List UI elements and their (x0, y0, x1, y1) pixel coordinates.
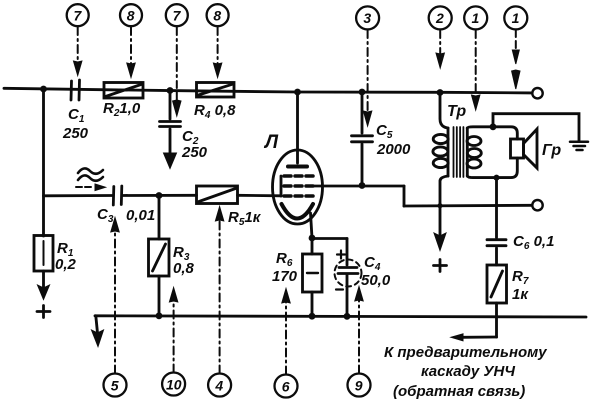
tube grid spine (280, 176, 283, 196)
wire lower rail (grid wire) (44, 194, 113, 197)
svg-text:1: 1 (472, 10, 480, 26)
node junction speaker top (490, 123, 497, 130)
svg-text:C1: C1 (68, 106, 85, 125)
pin 2 callout (Tp) (429, 6, 452, 29)
node junction Tp primary top (437, 89, 444, 96)
wire to top ground (493, 114, 579, 141)
tube grid row 2 (284, 184, 313, 188)
wire C3 to R5 (123, 194, 197, 197)
value label C3 0,01 (97, 206, 155, 225)
svg-text:R51к: R51к (228, 209, 262, 228)
svg-text:1: 1 (512, 10, 520, 26)
value label R1 0,2 (55, 240, 77, 273)
pin 8 callout (R4) (207, 4, 229, 26)
tube cathode arc (282, 204, 314, 219)
resistor R3 (158, 196, 161, 240)
value label C5 2000 (376, 122, 411, 158)
value label C2 250 (181, 128, 208, 161)
svg-text:0,2: 0,2 (55, 256, 77, 273)
capacitor C6 (495, 178, 498, 238)
pin 7 callout (C2) (166, 4, 188, 26)
transformer Tp secondary winding (466, 128, 469, 176)
svg-text:Гр: Гр (542, 142, 561, 159)
svg-text:250: 250 (181, 144, 208, 161)
value label R4 0,8 (194, 102, 236, 121)
polarity plus C4 (337, 251, 345, 259)
value label R6 170 (272, 250, 298, 285)
transformer Tp primary winding (440, 93, 448, 129)
plus sign below Tp primary (434, 260, 447, 272)
svg-text:C5: C5 (376, 122, 393, 141)
value label C6 0,1 (513, 233, 554, 252)
svg-text:8: 8 (127, 8, 135, 24)
svg-text:1к: 1к (512, 286, 529, 303)
svg-text:10: 10 (166, 377, 182, 393)
capacitor C5 (361, 92, 364, 133)
speaker Gr (511, 139, 524, 158)
capacitor C3 (113, 186, 122, 205)
node junction R3 bottom (156, 312, 163, 319)
pin 10 callout (R3) (162, 373, 185, 396)
svg-text:К предварительному: К предварительному (384, 344, 547, 361)
resistor R6 (311, 238, 314, 254)
node junction C5 top (359, 89, 366, 96)
ground bus wire (95, 316, 586, 317)
pin 7 callout (C1) (67, 4, 89, 26)
node junction left top (40, 86, 47, 93)
ground bus left arrow (96, 316, 98, 333)
polarity minus C4 (336, 288, 343, 290)
value label R5 1k (228, 209, 262, 228)
svg-text:6: 6 (282, 379, 290, 395)
supply arrow below Tp primary (434, 233, 446, 251)
tube label (263, 132, 279, 153)
svg-text:3: 3 (363, 10, 371, 26)
svg-text:R21,0: R21,0 (103, 100, 141, 119)
pin 6 callout (R6) (275, 375, 298, 398)
value label R7 1k (512, 268, 529, 303)
wire R5 to tube grid (238, 194, 282, 197)
svg-text:каскаду УНЧ: каскаду УНЧ (421, 363, 515, 380)
node terminal top-right (open circle) (532, 88, 542, 98)
svg-text:4: 4 (214, 378, 223, 394)
wire left vertical branch (42, 89, 45, 235)
svg-text:250: 250 (62, 125, 89, 142)
transformer Tp core (454, 127, 464, 177)
node junction C5 bottom (359, 182, 366, 189)
resistor R2 (104, 83, 143, 99)
node junction C4 bottom (344, 313, 351, 320)
svg-text:0,8: 0,8 (173, 260, 195, 277)
transformer Tp label (447, 103, 466, 120)
value label C4 50,0 (361, 254, 391, 289)
node junction R3 top (156, 192, 163, 199)
value label C1 250 (62, 106, 89, 142)
value label R2 1,0 (103, 100, 141, 119)
svg-text:170: 170 (272, 268, 298, 285)
pin 1 callout (terminal) (504, 6, 527, 29)
svg-text:R7: R7 (512, 268, 529, 287)
value label R3 0,8 (173, 244, 195, 277)
node junction R6 bottom (309, 313, 316, 320)
pin 5 callout (C3) (104, 374, 127, 397)
tube anode lead (296, 92, 299, 163)
wire tube to output step (313, 185, 404, 188)
svg-text:50,0: 50,0 (361, 272, 391, 289)
svg-text:7: 7 (74, 8, 83, 24)
svg-text:C6 0,1: C6 0,1 (513, 233, 554, 252)
pin 4 callout (R5) (208, 374, 231, 397)
capacitor C4 electrolytic (312, 237, 347, 240)
svg-text:(обратная связь): (обратная связь) (393, 383, 525, 400)
chassis arrow below C2 (164, 153, 177, 169)
resistor R7 (487, 265, 507, 303)
pin 1 callout (Tp right) (464, 6, 487, 29)
svg-text:9: 9 (355, 378, 363, 394)
node junction cathode (309, 235, 316, 242)
feedback text annotation (384, 344, 547, 400)
svg-text:8: 8 (213, 8, 221, 24)
feedback wire arrow (462, 336, 497, 339)
tube grid row 3 (284, 194, 313, 198)
AC input dashed arrow (76, 186, 94, 188)
svg-text:Тр: Тр (447, 103, 466, 120)
pin 3 callout (C5) (356, 6, 379, 29)
svg-text:Л: Л (263, 132, 279, 153)
svg-text:R4 0,8: R4 0,8 (194, 102, 236, 121)
capacitor C2 (169, 91, 172, 119)
wire speaker loop (467, 127, 517, 139)
node junction primary/output wire (437, 203, 442, 208)
resistor R1 (42, 235, 45, 236)
resistor R5 (197, 186, 238, 204)
tube grid row 1 (284, 174, 313, 178)
svg-text:5: 5 (111, 378, 119, 394)
pin 9 callout (C4) (348, 374, 371, 397)
supply arrow below R1 (42, 271, 45, 288)
svg-text:C3: C3 (97, 206, 114, 225)
capacitor C1 (71, 80, 80, 100)
plus sign below R1 (37, 306, 50, 318)
svg-text:7: 7 (173, 8, 182, 24)
tube cathode lead (311, 213, 313, 238)
tube U1 envelope (273, 150, 323, 224)
svg-text:0,01: 0,01 (126, 207, 155, 224)
pin 8 callout (R2) (120, 4, 142, 26)
svg-text:C4: C4 (364, 254, 381, 273)
node junction C2/top rail (167, 87, 174, 94)
ground (earth) top right (570, 142, 588, 150)
svg-text:R6: R6 (276, 250, 293, 269)
wire top rail (4, 88, 532, 93)
speaker label (542, 142, 561, 159)
node junction speaker bottom (494, 175, 500, 181)
svg-text:2000: 2000 (376, 141, 411, 158)
svg-text:2: 2 (435, 10, 444, 26)
node terminal right middle (open circle) (532, 200, 542, 210)
tube anode plate (288, 165, 307, 169)
AC input squiggle (78, 168, 103, 180)
resistor R4 (197, 83, 235, 98)
node junction anode/top rail (294, 89, 301, 96)
